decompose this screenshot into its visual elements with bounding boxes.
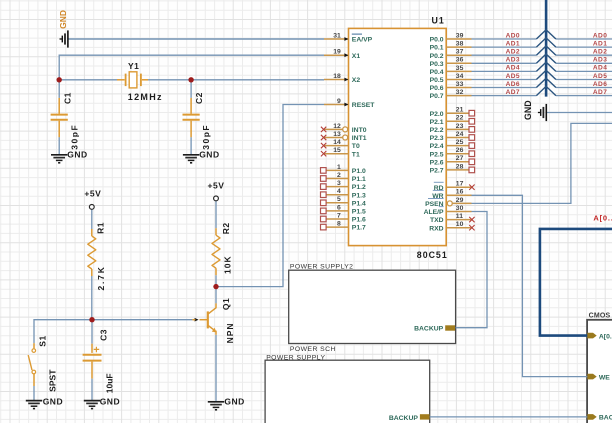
ground GND1 top-left xyxy=(67,30,69,47)
resistor R1 xyxy=(91,229,93,236)
capacitor C3 polarized xyxy=(91,344,93,353)
svg-text:2: 2 xyxy=(337,172,341,179)
U1 pin 22 P2.1 xyxy=(446,120,469,122)
U1 pin 12 INT0 xyxy=(324,128,343,130)
svg-text:P1.7: P1.7 xyxy=(352,225,366,232)
svg-text:9: 9 xyxy=(337,98,341,105)
bus AD vertical xyxy=(545,0,548,97)
junction X2/C2/crystal xyxy=(188,77,193,82)
svg-text:28: 28 xyxy=(456,163,464,170)
ground under C1 xyxy=(51,154,67,156)
wire C3 top xyxy=(91,320,93,344)
wire P0.0 to bus (AD0) xyxy=(472,38,537,40)
transistor Q1 xyxy=(207,311,209,328)
wire crystal left segment xyxy=(59,79,117,81)
wire X1 net xyxy=(59,55,324,80)
U1 pin 38 P0.1 xyxy=(446,46,471,48)
wire P0.5 to bus (AD5) xyxy=(472,79,537,81)
svg-text:39: 39 xyxy=(456,32,464,39)
U1 pin 33 P0.6 xyxy=(446,87,471,89)
svg-text:10K: 10K xyxy=(222,255,232,274)
svg-text:P1.3: P1.3 xyxy=(352,192,366,199)
bus A[0..7] to CMOS xyxy=(540,229,612,336)
svg-text:22: 22 xyxy=(456,115,464,122)
bus entry AD2 xyxy=(536,46,556,55)
svg-text:Q1: Q1 xyxy=(221,298,231,310)
svg-text:P1.4: P1.4 xyxy=(352,200,366,207)
wire C3 to GND xyxy=(91,379,93,401)
wire AD2 right of bus xyxy=(556,54,612,56)
svg-text:WE: WE xyxy=(599,374,610,381)
svg-text:AD3: AD3 xyxy=(593,57,607,64)
svg-text:P2.5: P2.5 xyxy=(430,151,444,158)
wire ALE to BACKUP2 xyxy=(456,212,487,328)
svg-text:A[0..7]: A[0..7] xyxy=(599,333,612,340)
svg-text:INT0: INT0 xyxy=(352,127,367,134)
svg-text:10uF: 10uF xyxy=(104,373,114,393)
svg-text:19: 19 xyxy=(333,49,341,56)
wire base net S1 to Q1 xyxy=(34,320,192,344)
U1 pin 27 P2.6 xyxy=(446,161,469,163)
U1 pin 10 RXD xyxy=(446,227,471,229)
bus entry AD0 xyxy=(536,30,556,39)
svg-text:AD2: AD2 xyxy=(506,49,520,56)
svg-text:P0.7: P0.7 xyxy=(430,93,444,100)
wire P0.1 to bus (AD1) xyxy=(472,46,537,48)
svg-text:12: 12 xyxy=(333,123,341,130)
svg-text:24: 24 xyxy=(456,131,464,138)
U1 pin 14 T0 xyxy=(324,145,349,147)
svg-text:17: 17 xyxy=(456,181,464,188)
wire P0.6 to bus (AD6) xyxy=(472,87,537,89)
junction R1/C3/base xyxy=(89,317,94,322)
svg-text:7: 7 xyxy=(337,212,341,219)
svg-text:U1: U1 xyxy=(432,16,445,26)
wire AD5 right of bus xyxy=(556,79,612,81)
U1 pin 26 P2.5 xyxy=(446,153,469,155)
bus entry AD3 xyxy=(536,54,556,63)
pin BACKUP (POWER SUPPLY) xyxy=(420,414,430,419)
svg-text:P1.1: P1.1 xyxy=(352,176,366,183)
wire S1 to GND xyxy=(33,386,35,400)
wire R1 to base node xyxy=(91,276,93,320)
bus entry AD6 xyxy=(536,78,556,87)
wire BACKUP to CMOS xyxy=(430,416,588,418)
svg-text:37: 37 xyxy=(456,49,464,56)
svg-text:6: 6 xyxy=(337,204,341,211)
svg-text:30pF: 30pF xyxy=(201,124,211,150)
bus entry AD1 xyxy=(536,38,556,47)
svg-text:BACKUP: BACKUP xyxy=(414,326,444,333)
ground under S1 xyxy=(26,400,42,402)
svg-text:P1.0: P1.0 xyxy=(352,168,366,175)
wire AD7 right of bus xyxy=(556,95,612,97)
U1 pin 37 P0.2 xyxy=(446,54,471,56)
svg-text:ALE/P: ALE/P xyxy=(424,209,444,216)
svg-text:36: 36 xyxy=(456,57,464,64)
svg-text:GND: GND xyxy=(199,149,219,159)
pin BACKUP (POWER SUPPLY2) xyxy=(445,325,455,330)
svg-text:Y1: Y1 xyxy=(128,61,139,71)
svg-text:AD5: AD5 xyxy=(593,73,607,80)
U1 pin 8 P1.7 xyxy=(326,226,348,228)
U1 pin 28 P2.7 xyxy=(446,169,469,171)
svg-text:3: 3 xyxy=(337,180,341,187)
svg-text:33: 33 xyxy=(456,81,464,88)
switch S1 xyxy=(33,343,35,348)
svg-text:P2.7: P2.7 xyxy=(430,168,444,175)
CMOS pin BACKUP xyxy=(587,414,596,420)
svg-text:30: 30 xyxy=(456,205,464,212)
svg-text:P2.4: P2.4 xyxy=(430,143,444,150)
svg-text:TXD: TXD xyxy=(430,217,444,224)
capacitor C1 xyxy=(58,98,60,114)
svg-text:16: 16 xyxy=(456,189,464,196)
svg-text:AD1: AD1 xyxy=(593,40,607,47)
svg-text:23: 23 xyxy=(456,123,464,130)
svg-text:C2: C2 xyxy=(194,92,204,104)
svg-text:P0.0: P0.0 xyxy=(430,37,444,44)
block POWER SUPPLY2 body xyxy=(289,270,456,343)
U1 pin 2 P1.1 xyxy=(326,178,348,180)
svg-text:P0.5: P0.5 xyxy=(430,77,444,84)
svg-text:2.7K: 2.7K xyxy=(96,265,106,290)
wire C2 bottom xyxy=(190,137,192,154)
wire AD1 right of bus xyxy=(556,46,612,48)
ground GND2 xyxy=(545,104,547,121)
U1 pin 29 PSEN xyxy=(447,201,452,206)
svg-text:+5V: +5V xyxy=(208,181,225,191)
svg-text:35: 35 xyxy=(456,65,464,72)
wire R2 to collector node xyxy=(215,275,217,286)
CMOS pin WE xyxy=(587,374,596,380)
svg-text:A[0..7]: A[0..7] xyxy=(593,214,612,223)
svg-text:18: 18 xyxy=(333,73,341,80)
svg-text:S1: S1 xyxy=(38,335,48,346)
svg-text:P0.4: P0.4 xyxy=(430,69,444,76)
U1 pin 7 P1.6 xyxy=(326,218,348,220)
wire AD0 right of bus xyxy=(556,38,612,40)
wire P0.3 to bus (AD3) xyxy=(472,62,537,64)
svg-text:10: 10 xyxy=(456,221,464,228)
U1 pin 15 T1 xyxy=(324,153,349,155)
IC CMOS memory body xyxy=(587,320,612,423)
svg-text:+5V: +5V xyxy=(84,189,101,199)
svg-text:25: 25 xyxy=(456,139,464,146)
svg-text:12MHz: 12MHz xyxy=(128,92,163,102)
svg-text:AD6: AD6 xyxy=(506,81,520,88)
svg-text:P2.0: P2.0 xyxy=(430,111,444,118)
svg-text:5: 5 xyxy=(337,196,341,203)
svg-text:30pF: 30pF xyxy=(69,124,79,150)
svg-text:80C51: 80C51 xyxy=(417,250,448,260)
U1 pin 25 P2.4 xyxy=(446,145,469,147)
U1 pin 24 P2.3 xyxy=(446,137,469,139)
bus entry AD4 xyxy=(536,62,556,71)
wire WR to CMOS WE xyxy=(472,195,588,376)
U1 pin 35 P0.4 xyxy=(446,70,471,72)
U1 pin 17 RD xyxy=(446,186,471,188)
svg-text:P0.2: P0.2 xyxy=(430,53,444,60)
svg-text:11: 11 xyxy=(456,213,463,220)
wire P0.4 to bus (AD4) xyxy=(472,70,537,72)
ground under Q1 xyxy=(208,401,224,403)
svg-text:P0.3: P0.3 xyxy=(430,61,444,68)
svg-text:29: 29 xyxy=(456,197,464,204)
svg-text:38: 38 xyxy=(456,41,464,48)
wire C2 top xyxy=(190,80,192,98)
svg-text:1: 1 xyxy=(337,164,341,171)
CMOS pin A[0..7] xyxy=(587,333,596,339)
svg-text:34: 34 xyxy=(456,73,464,80)
wire P0.7 to bus (AD7) xyxy=(472,95,537,97)
resistor R2 xyxy=(215,228,217,235)
svg-text:POWER SUPPLY2: POWER SUPPLY2 xyxy=(290,263,354,270)
wire GND to EA/VP xyxy=(68,38,324,40)
svg-text:AD5: AD5 xyxy=(506,73,520,80)
svg-text:R2: R2 xyxy=(221,222,231,234)
svg-text:SPST: SPST xyxy=(48,369,58,392)
U1 pin 1 P1.0 xyxy=(326,169,348,171)
svg-text:RXD: RXD xyxy=(429,225,443,232)
U1 pin 34 P0.5 xyxy=(446,79,471,81)
block POWER SUPPLY body xyxy=(265,360,430,423)
wire GND2 xyxy=(547,112,612,114)
svg-text:GND: GND xyxy=(523,100,533,120)
svg-text:R1: R1 xyxy=(96,222,106,234)
svg-text:AD3: AD3 xyxy=(506,57,520,64)
U1 pin 32 P0.7 xyxy=(446,95,471,97)
ground under C3 xyxy=(84,400,100,402)
bus entry AD7 xyxy=(536,86,556,95)
U1 pin 6 P1.5 xyxy=(326,210,348,212)
svg-text:CMOS M: CMOS M xyxy=(589,312,612,319)
crystal Y1 xyxy=(117,79,125,81)
U1 pin 36 P0.3 xyxy=(446,62,471,64)
U1 pin 13 INT1 xyxy=(324,137,343,139)
svg-text:T0: T0 xyxy=(352,143,360,150)
U1 pin 19 X1 xyxy=(324,54,349,56)
svg-text:14: 14 xyxy=(333,139,341,146)
U1 pin 30 ALE/P xyxy=(446,211,471,213)
svg-text:P2.3: P2.3 xyxy=(430,135,444,142)
svg-text:BACKUP: BACKUP xyxy=(389,415,419,422)
junction RESET/R2/Q1 xyxy=(213,284,218,289)
svg-text:P2.2: P2.2 xyxy=(430,127,444,134)
svg-text:X2: X2 xyxy=(352,77,361,84)
svg-text:POWER SCH: POWER SCH xyxy=(290,346,336,353)
svg-text:C1: C1 xyxy=(62,92,72,104)
svg-text:AD2: AD2 xyxy=(593,49,607,56)
svg-text:BACKUP: BACKUP xyxy=(599,415,612,422)
wire PSEN net xyxy=(452,123,612,203)
U1 pin 31 EA/VP xyxy=(324,38,349,40)
svg-text:27: 27 xyxy=(456,155,464,162)
svg-text:P0.6: P0.6 xyxy=(430,85,444,92)
svg-text:P1.6: P1.6 xyxy=(352,217,366,224)
svg-text:AD0: AD0 xyxy=(506,32,520,39)
svg-text:AD7: AD7 xyxy=(593,89,607,96)
svg-text:P2.1: P2.1 xyxy=(430,119,444,126)
svg-text:P1.2: P1.2 xyxy=(352,184,366,191)
svg-text:EA/VP: EA/VP xyxy=(352,37,373,44)
capacitor C2 xyxy=(190,98,192,114)
U1 pin 39 P0.0 xyxy=(446,38,471,40)
U1 pin 4 P1.3 xyxy=(326,194,348,196)
svg-text:RESET: RESET xyxy=(352,102,376,109)
svg-text:AD4: AD4 xyxy=(593,65,607,72)
svg-text:POWER SUPPLY: POWER SUPPLY xyxy=(266,354,325,361)
wire +5V to R1 xyxy=(91,209,93,229)
svg-text:31: 31 xyxy=(333,32,341,39)
U1 pin 5 P1.4 xyxy=(326,202,348,204)
wire P0.2 to bus (AD2) xyxy=(472,54,537,56)
ground under C2 xyxy=(183,154,199,156)
svg-text:GND: GND xyxy=(224,397,244,407)
wire crystal right to X2 xyxy=(148,79,324,81)
svg-text:P0.1: P0.1 xyxy=(430,45,444,52)
wire AD6 right of bus xyxy=(556,87,612,89)
svg-text:13: 13 xyxy=(333,131,341,138)
svg-text:8: 8 xyxy=(337,221,341,228)
svg-text:AD7: AD7 xyxy=(506,89,520,96)
U1 pin 9 RESET xyxy=(324,104,349,106)
svg-text:GND: GND xyxy=(100,397,120,407)
svg-text:INT1: INT1 xyxy=(352,135,367,142)
svg-text:C3: C3 xyxy=(99,329,109,341)
svg-text:AD4: AD4 xyxy=(506,65,520,72)
U1 pin 18 X2 xyxy=(324,79,349,81)
bus entry AD5 xyxy=(536,70,556,79)
svg-text:X1: X1 xyxy=(352,53,361,60)
wire RESET net xyxy=(216,105,324,287)
U1 pin 21 P2.0 xyxy=(446,112,469,114)
svg-text:32: 32 xyxy=(456,89,464,96)
svg-text:4: 4 xyxy=(337,188,341,195)
svg-text:NPN: NPN xyxy=(225,322,235,343)
svg-text:P1.5: P1.5 xyxy=(352,209,366,216)
wire +5V to R2 xyxy=(215,201,217,228)
IC U1 80C51 body xyxy=(349,28,447,245)
junction X1/C1/crystal xyxy=(57,77,62,82)
wire emitter to GND xyxy=(215,335,217,402)
U1 pin 16 WR xyxy=(446,194,471,196)
U1 pin 23 P2.2 xyxy=(446,128,469,130)
U1 pin 11 TXD xyxy=(446,219,471,221)
svg-text:GND: GND xyxy=(58,10,68,29)
svg-text:AD6: AD6 xyxy=(593,81,607,88)
wire C1 bottom xyxy=(58,137,60,154)
wire C1 top xyxy=(58,80,60,98)
svg-text:T1: T1 xyxy=(352,151,360,158)
svg-text:26: 26 xyxy=(456,147,464,154)
svg-text:21: 21 xyxy=(456,107,464,114)
svg-text:GND: GND xyxy=(67,149,87,159)
svg-text:P2.6: P2.6 xyxy=(430,159,444,166)
svg-text:GND: GND xyxy=(43,397,63,407)
U1 pin 3 P1.2 xyxy=(326,186,348,188)
wire AD3 right of bus xyxy=(556,62,612,64)
wire AD4 right of bus xyxy=(556,70,612,72)
wire collector xyxy=(215,287,217,304)
svg-text:AD1: AD1 xyxy=(506,40,520,47)
svg-text:AD0: AD0 xyxy=(593,32,607,39)
svg-text:15: 15 xyxy=(333,147,341,154)
